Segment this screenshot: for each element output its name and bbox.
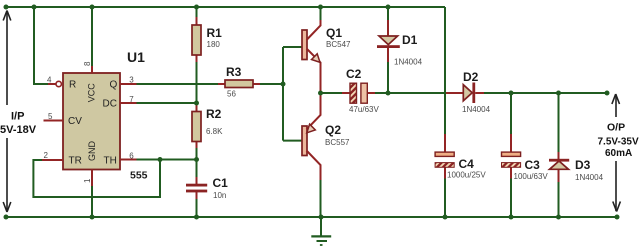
wire from top rail down to C4: [444, 7, 446, 134]
junction emitter node: [318, 91, 323, 96]
svg-text:Q2: Q2: [325, 123, 341, 137]
junction D1 C2 D2: [386, 91, 391, 96]
svg-text:R: R: [69, 80, 76, 91]
junction top rail at input: [4, 5, 9, 10]
input measurement arrow: [3, 11, 11, 213]
resistor R1: [192, 17, 201, 62]
wire C2 to D1 node: [375, 92, 388, 94]
junction ground rail at C1: [194, 215, 199, 220]
svg-text:3: 3: [129, 76, 134, 85]
wire pin7 DC to R1 R2 node: [137, 102, 197, 104]
U1 pin 2 stub TR: [42, 159, 63, 161]
junction ground rail output terminal: [615, 215, 620, 220]
wire C4 bottom to ground rail: [444, 179, 446, 218]
svg-text:C3: C3: [525, 158, 541, 172]
U1 pin 4 stub with bubble: [48, 81, 61, 86]
diode D1 1N4004: [377, 20, 400, 62]
transistor Q2 BC557: [302, 94, 321, 180]
junction top rail at D1: [386, 5, 391, 10]
output measurement arrow: [612, 94, 621, 212]
wire emitter node to C2: [321, 92, 343, 94]
wire top rail to VCC pin8: [91, 7, 93, 66]
junction TH R2 C1: [194, 157, 199, 162]
svg-text:1: 1: [83, 178, 92, 183]
svg-text:GND: GND: [87, 141, 97, 162]
op-amp U1 555 timer body: [63, 73, 120, 170]
svg-text:47u/63V: 47u/63V: [349, 105, 379, 114]
wire TR loop to TH: [33, 160, 160, 198]
svg-text:1N4004: 1N4004: [394, 58, 423, 67]
svg-text:D1: D1: [402, 33, 418, 47]
ground symbol: [311, 217, 331, 245]
wire top rail to Q1 collector: [320, 7, 322, 20]
svg-text:BC557: BC557: [325, 138, 350, 147]
svg-text:U1: U1: [127, 49, 145, 65]
U1 pin 8 stub VCC: [91, 66, 93, 73]
capacitor C3 polarized: [502, 134, 521, 179]
capacitor C2 polarized: [342, 83, 375, 103]
wire base node to Q1 base: [283, 46, 302, 48]
junction output rail at C3: [509, 91, 514, 96]
svg-text:10n: 10n: [213, 191, 226, 200]
svg-text:R3: R3: [226, 65, 242, 79]
U1 pin 6 stub TH: [120, 159, 137, 161]
junction ground rail at C3: [509, 215, 514, 220]
svg-text:1N4004: 1N4004: [462, 105, 491, 114]
svg-text:O/P: O/P: [607, 122, 625, 134]
wire top rail to pin4 R: [34, 7, 48, 84]
svg-text:100u/63V: 100u/63V: [514, 172, 549, 181]
svg-text:5V-18V: 5V-18V: [0, 124, 37, 136]
wire GND pin1 to ground rail: [91, 186, 93, 217]
svg-text:C2: C2: [346, 67, 362, 81]
wire R3 to base node: [260, 83, 283, 85]
wire R2 to node TH: [196, 148, 198, 177]
wire C3 to ground rail: [510, 179, 512, 218]
junction top rail at R1: [194, 5, 199, 10]
wire ground bottom rail: [6, 216, 617, 218]
wire base node to Q2 base: [283, 140, 302, 142]
junction top rail at Q1 collector: [318, 5, 323, 10]
svg-text:TR: TR: [69, 156, 82, 167]
U1 pin 3 stub Q: [120, 83, 137, 85]
junction ground rail at Q2 collector: [319, 215, 324, 220]
svg-text:8: 8: [83, 61, 92, 66]
resistor R3: [218, 80, 260, 88]
junction ground rail at D3: [556, 215, 561, 220]
wire R1 to node DC: [196, 62, 198, 103]
svg-text:4: 4: [47, 76, 52, 85]
U1 pin 7 stub DC: [120, 102, 137, 104]
wire D1 node to D2 anode: [388, 92, 446, 94]
svg-text:TH: TH: [104, 156, 117, 167]
wire pin3 Q to R3: [137, 83, 219, 85]
junction top rail at pin4 wire: [32, 5, 37, 10]
svg-text:VCC: VCC: [87, 83, 97, 103]
svg-text:DC: DC: [103, 99, 117, 110]
junction output rail at D3: [556, 91, 561, 96]
svg-text:7.5V-35V: 7.5V-35V: [598, 137, 639, 148]
wire top rail to D1: [387, 7, 389, 20]
transistor Q1 BC547: [302, 20, 321, 92]
svg-text:555: 555: [130, 170, 148, 182]
wire output rail to D3: [558, 93, 560, 152]
junction node DC R1 R2: [194, 101, 199, 106]
wire base node vertical: [282, 47, 284, 141]
svg-text:2: 2: [44, 151, 49, 160]
svg-text:7: 7: [129, 95, 134, 104]
diode D2 1N4004: [446, 83, 484, 104]
junction base node: [281, 82, 286, 87]
wire top rail to R1: [196, 7, 198, 17]
svg-text:I/P: I/P: [11, 111, 24, 123]
svg-text:D2: D2: [463, 70, 479, 84]
junction TR loop TH: [158, 157, 163, 162]
junction top rail at pin8 wire: [90, 5, 95, 10]
svg-text:D3: D3: [575, 158, 591, 172]
svg-text:C4: C4: [459, 157, 475, 171]
U1 pin 1 stub GND: [91, 170, 93, 187]
wire Q2 collector to ground rail: [320, 180, 322, 217]
capacitor C1: [186, 177, 207, 199]
junction ground rail at C4: [443, 215, 448, 220]
svg-text:CV: CV: [68, 116, 82, 127]
junction ground rail at pin1: [90, 215, 95, 220]
svg-text:BC547: BC547: [326, 40, 351, 49]
wire D1 to middle rail node: [387, 62, 389, 93]
svg-text:6: 6: [129, 152, 134, 161]
svg-text:Q1: Q1: [326, 26, 342, 40]
svg-text:5: 5: [48, 112, 53, 121]
junction output terminal: [605, 91, 610, 96]
svg-text:C1: C1: [213, 176, 229, 190]
diode D3 1N4004: [549, 152, 569, 182]
svg-text:R2: R2: [206, 107, 222, 121]
wire output rail to C3: [510, 93, 512, 134]
svg-text:R1: R1: [207, 26, 223, 40]
U1 pin 5 stub CV: [44, 120, 64, 122]
capacitor C4 polarized: [435, 134, 454, 179]
svg-text:Q: Q: [110, 80, 118, 91]
resistor R2: [192, 104, 201, 148]
svg-text:6.8K: 6.8K: [206, 127, 223, 136]
wire VCC top rail: [6, 6, 445, 8]
wire D2 cathode to output node: [484, 92, 607, 94]
wire D3 to ground rail: [558, 182, 560, 217]
svg-text:1N4004: 1N4004: [575, 173, 604, 182]
wire pin6 TH to R2 C1 node: [137, 159, 197, 161]
svg-text:1000u/25V: 1000u/25V: [447, 171, 486, 180]
svg-text:180: 180: [207, 40, 221, 49]
svg-text:60mA: 60mA: [605, 148, 632, 159]
svg-text:56: 56: [227, 90, 236, 99]
junction ground rail at input: [4, 215, 9, 220]
wire node DC to R2: [196, 103, 198, 105]
wire C1 to ground rail: [196, 199, 198, 217]
